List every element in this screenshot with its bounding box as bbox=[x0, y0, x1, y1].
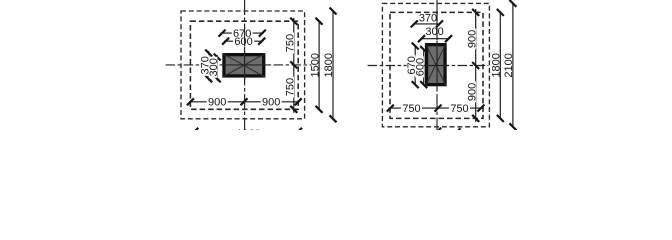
partial bottom dimension (right, cut off at canvas edge) bbox=[406, 128, 460, 141]
svg-text:600: 600 bbox=[414, 58, 426, 76]
svg-text:300: 300 bbox=[208, 58, 220, 76]
dimension 750 upper segment (left, right side rotated) bbox=[284, 18, 297, 113]
dimension 900 lower segment (right, right side rotated) bbox=[466, 81, 478, 102]
svg-text:1500: 1500 bbox=[310, 53, 322, 77]
inner footing outline (dashed rect, right) bbox=[390, 12, 483, 118]
svg-text:750: 750 bbox=[402, 103, 420, 115]
centerline horizontal (right detail axis) bbox=[368, 65, 489, 67]
dimension 600 (right, left side rotated) bbox=[414, 46, 427, 88]
column pier (filled rect with cross, left) bbox=[223, 54, 265, 77]
svg-text:750: 750 bbox=[450, 103, 468, 115]
centerline horizontal overlay through column (right) bbox=[424, 65, 449, 67]
centerline vertical overlay through column (left) bbox=[244, 52, 246, 80]
outer footing outline (dashed rect, right) bbox=[382, 3, 489, 126]
svg-text:1800: 1800 bbox=[236, 128, 260, 130]
inner footing outline (dashed rect, left) bbox=[190, 21, 298, 109]
dimension 750 right segment (right, bottom horizontal) bbox=[449, 103, 470, 115]
dimension 300 (right, top horizontal, text above line) bbox=[418, 26, 452, 42]
svg-text:600: 600 bbox=[234, 36, 252, 48]
outer footing outline (dashed rect, left) bbox=[181, 11, 305, 119]
dimension 370 (left, vertical rotated) bbox=[199, 50, 212, 83]
svg-text:750: 750 bbox=[284, 34, 296, 52]
svg-text:1800: 1800 bbox=[491, 53, 503, 77]
svg-text:1800: 1800 bbox=[323, 53, 335, 77]
dimension 2100 (right, far right rotated) bbox=[503, 0, 516, 130]
dimension 750 left segment (right, bottom horizontal) bbox=[387, 103, 485, 115]
svg-text:1500: 1500 bbox=[406, 129, 430, 130]
dimension 900 upper segment (right, right side rotated) bbox=[466, 9, 479, 122]
dimension 670 (right, left side rotated) bbox=[406, 43, 419, 89]
svg-text:370: 370 bbox=[419, 12, 437, 24]
dimension 300 (left, vertical rotated) bbox=[208, 54, 221, 83]
svg-text:2100: 2100 bbox=[503, 53, 515, 77]
partial bottom dimension (left, cut off at canvas edge) bbox=[191, 128, 302, 140]
dimension 1500 (left, far right rotated) bbox=[310, 18, 323, 113]
dimension 900 left segment (left, bottom horizontal) bbox=[187, 97, 302, 109]
centerline vertical (left plan axis) bbox=[244, 0, 246, 130]
svg-text:900: 900 bbox=[466, 30, 478, 48]
dimension 600 (left, top horizontal) bbox=[222, 36, 265, 48]
dimension 750 lower segment (left, right side rotated) bbox=[284, 77, 296, 98]
dimension 900 right segment (left, bottom horizontal) bbox=[261, 97, 282, 109]
centerline vertical (right detail axis) bbox=[436, 0, 438, 130]
centerline vertical overlay across 370/300 texts (right) bbox=[436, 11, 438, 41]
centerline vertical overlay across 670/600 texts (left) bbox=[244, 27, 246, 47]
centerline horizontal (left plan axis) bbox=[166, 64, 312, 66]
svg-text:900: 900 bbox=[262, 97, 280, 109]
dimension 370 (right, top horizontal, text above line) bbox=[411, 12, 443, 27]
centerline vertical overlay through column (right) bbox=[436, 42, 438, 88]
column pier (filled rect with cross, right) bbox=[426, 44, 446, 86]
dimension 1800 (left, far right rotated) bbox=[323, 8, 337, 123]
dimension 1800 (right, far right rotated) bbox=[491, 9, 504, 122]
svg-text:900: 900 bbox=[466, 83, 478, 101]
svg-text:300: 300 bbox=[425, 26, 443, 38]
centerline horizontal overlay through column (left) bbox=[221, 64, 268, 66]
svg-text:750: 750 bbox=[284, 78, 296, 96]
svg-text:900: 900 bbox=[208, 97, 226, 109]
dimension 670 (left, top horizontal) bbox=[219, 28, 266, 40]
